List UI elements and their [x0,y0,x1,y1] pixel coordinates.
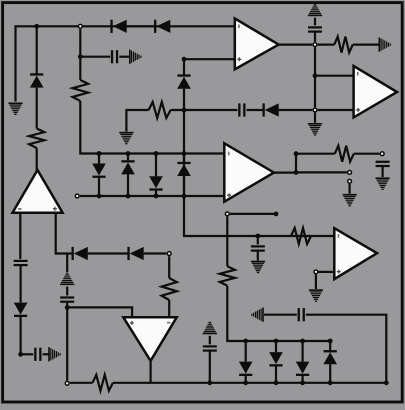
node junction N [154,151,159,156]
wire A1 non-inverting input [56,213,72,254]
wire y110 row [126,110,148,132]
diode D8 [323,350,337,364]
ground G9 [308,123,322,136]
wire [168,300,170,317]
wire [245,341,247,362]
node terminal N3 [225,212,229,216]
node junction [243,380,248,385]
resistor R5 [73,80,89,101]
wire [36,148,38,171]
diode D4 [127,247,143,260]
node junction M [126,151,131,156]
wire branch [66,254,68,273]
wire A4 inverting input [315,75,354,77]
resistor R8 [334,37,352,53]
capacitor C10 [376,161,390,167]
wire [43,353,49,355]
node junction S [182,194,187,199]
wire [302,341,304,362]
op-amp A2 [123,317,176,361]
ground G12 [376,177,390,190]
diode D9 [92,164,106,178]
node terminal N2 [65,381,69,385]
wire [279,109,313,111]
diode D11 [149,176,163,190]
ground G13 [343,194,357,207]
capacitor C6 [111,50,118,63]
op-amp A3 [235,18,279,69]
wire A6 +input [319,271,335,273]
wire [98,154,100,164]
ground G5 (rotated left) [251,308,264,322]
op-amp A4 [354,66,397,118]
wire x80 column [79,29,81,57]
wire [66,287,68,296]
wire [306,315,386,383]
wire A1 inverting input [19,213,21,259]
diode D16 [154,20,170,33]
wire A3 output [279,43,313,45]
diode D10 [121,160,135,174]
wire [184,89,334,236]
node junction O [182,151,187,156]
node terminal N6 [313,108,317,112]
wire stub y57 [80,56,110,58]
ground G1 [8,103,22,116]
wire [98,178,100,196]
capacitor C8 [238,103,245,116]
wire [79,57,81,80]
node junction K [78,54,83,59]
op-amp A6 [334,228,377,279]
wire [314,113,316,123]
wire [183,154,185,162]
wire feedback up [296,154,335,173]
node junction R [154,194,159,199]
wire [119,56,129,58]
wire [315,275,317,289]
node junction W [313,73,318,78]
ground G2 [48,347,61,361]
node terminal N7 [313,43,317,47]
wire [318,43,335,45]
node terminal N1 [167,252,171,256]
node junction X [294,170,299,175]
wire [314,32,316,42]
wire [257,251,259,261]
node junction B [18,352,23,357]
wire [127,25,155,27]
wire [183,176,185,196]
wire [382,166,384,177]
resistor R1 [29,129,44,149]
wire [21,353,34,355]
capacitor C1 [14,260,28,266]
wire [80,101,224,154]
wire [36,88,38,129]
node terminal N11 [314,270,318,274]
node terminal N8 [380,152,384,156]
wire [302,376,304,383]
node junction T [182,57,187,62]
diode D3 [72,247,88,260]
node terminal N9 [348,171,352,175]
wire [353,43,379,45]
node junction Y [294,151,299,156]
wire [113,382,386,384]
op-amp A1 [13,170,63,213]
ground G4 (rotated up) [203,322,217,335]
node terminal N4 [78,24,82,28]
wire [20,265,22,302]
wire [209,351,211,383]
diode D12 [177,162,191,176]
wire A5 output [274,172,296,174]
wire [168,256,170,278]
ground G11 (rotated right) [379,38,392,52]
node terminal N10 [348,179,352,183]
resistor R4 [220,266,235,285]
wire bottom bus [70,382,93,384]
ground G3 (rotated up) [60,273,74,286]
wire [314,47,316,107]
resistor R7 [149,102,171,118]
wire [349,184,351,194]
op-amp A5 [224,143,274,201]
wire [257,236,259,244]
node junction D [207,380,212,385]
wire top-left bus [16,26,235,101]
node junction J [384,380,389,385]
wire N3 to R4 [226,217,228,267]
wire [329,341,331,350]
node junction U [182,108,187,113]
wire [227,286,330,341]
diode D14 [263,103,279,116]
wire [127,174,129,196]
wire [155,154,157,177]
capacitor C4 [203,345,217,351]
wire [127,154,129,161]
wire switch branch [296,171,347,173]
wire [354,153,380,155]
capacitor C3 [60,296,74,302]
node endpoint I [274,212,279,217]
diode D13 [177,74,191,88]
wire [209,336,211,345]
node terminal N5 [75,194,79,198]
node junction P [97,194,102,199]
wire [20,317,22,354]
wire [36,26,38,74]
wire [275,341,277,352]
node junction G [300,339,305,344]
node junction E [243,339,248,344]
node junction Q [126,194,131,199]
ground G7 [251,261,265,274]
wire A3 inverting input [184,58,235,60]
resistor R2 [162,278,177,300]
wire [144,252,167,254]
node junction L [97,151,102,156]
wire [66,307,68,380]
node junction H [328,339,333,344]
diode D6 [269,352,283,366]
wire [155,191,157,196]
diode D7 [296,362,310,376]
capacitor C2 [34,348,41,361]
wire y196 row [80,195,224,197]
wire [247,109,263,111]
node junction V [255,234,260,239]
wire [245,376,247,383]
wire [88,252,128,254]
wire [318,109,354,111]
wire [314,18,316,26]
wire to A2 +input [67,307,132,317]
diode D1 [30,73,44,87]
wire A2 output [150,361,152,383]
wire [66,302,68,308]
node junction [300,380,305,385]
diode D15 [110,20,126,33]
wire [329,364,331,383]
node junction A [34,24,39,29]
ground G10 (rotated up) [308,4,322,17]
node junction [274,380,279,385]
capacitor C7 [251,245,265,251]
diode D5 [239,362,253,376]
ground G14 [309,289,323,302]
node junction F [274,339,279,344]
wire [264,314,297,316]
wire x184 column [183,59,185,74]
ground G8 [119,132,133,145]
wire y214 [230,213,276,215]
node junction [328,380,333,385]
resistor R3 [93,375,113,391]
capacitor C9 [308,26,322,32]
diode D2 [14,303,28,317]
resistor R9 [335,146,354,162]
wire [171,109,238,111]
resistor R6 [291,228,311,244]
ground G6 (rotated right) [129,50,142,64]
wire [275,366,277,382]
node junction C [65,305,70,310]
capacitor C5 [298,308,305,321]
